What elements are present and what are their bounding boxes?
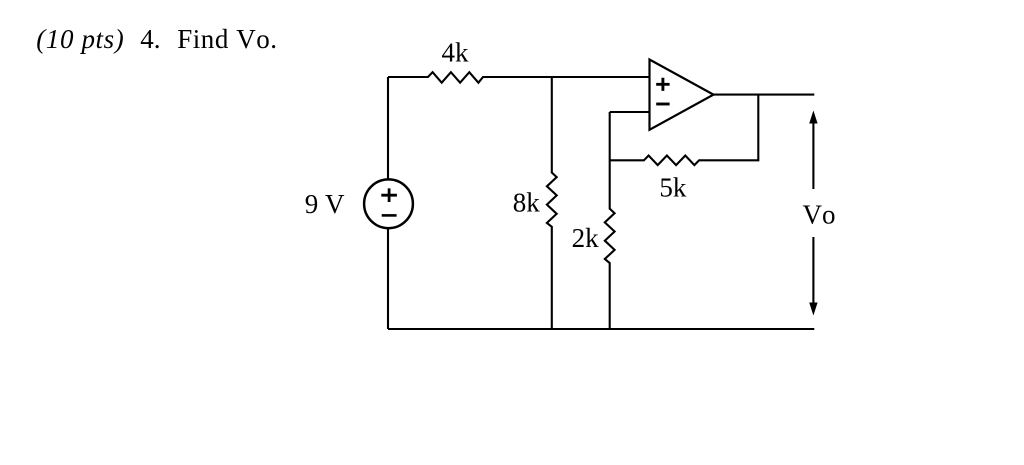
svg-text:9 V: 9 V xyxy=(305,189,345,219)
svg-text:8k: 8k xyxy=(513,187,541,217)
svg-text:5k: 5k xyxy=(659,173,687,203)
svg-text:Find Vo.: Find Vo. xyxy=(177,24,277,54)
svg-text:(10 pts): (10 pts) xyxy=(36,24,124,54)
svg-text:4.: 4. xyxy=(140,24,160,54)
svg-text:2k: 2k xyxy=(572,223,600,253)
svg-text:4k: 4k xyxy=(442,37,470,67)
svg-text:Vo: Vo xyxy=(803,199,836,229)
